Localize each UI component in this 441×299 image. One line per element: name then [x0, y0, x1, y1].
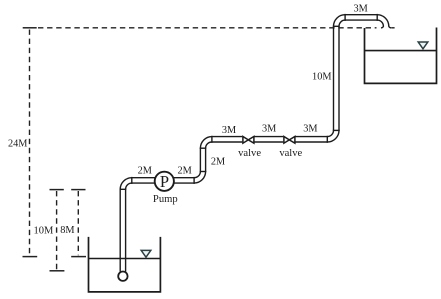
main riser pipe vertical 10M [334, 26, 340, 130]
suction elbow (vertical to horizontal at pump level) [120, 178, 132, 190]
dimension 10M vertical dashed line [56, 191, 58, 269]
lower tank water line [89, 258, 161, 260]
valve 2 (bowtie symbol) [284, 137, 295, 144]
riser top elbow joint ticks [200, 136, 212, 148]
valve line right elbow (horizontal to vertical up) [327, 130, 339, 142]
valve line pipe segment 2 (3M) [254, 137, 283, 142]
dimension 10M top cap [50, 189, 64, 191]
upper tank water level marker triangle [418, 42, 428, 49]
dimension 24M vertical dashed line [29, 30, 31, 256]
upper tank water line [365, 50, 437, 52]
dimension 8M bottom cap [71, 256, 86, 258]
svg-text:valve: valve [279, 148, 302, 159]
suction pipe horizontal (2M into pump) [132, 178, 164, 183]
svg-text:8M: 8M [60, 225, 74, 236]
dimension 24M bottom cap [23, 256, 38, 258]
lower tank water level marker triangle [141, 250, 151, 257]
valve 1 (bowtie symbol) [243, 137, 254, 144]
discharge elbow joint ticks [194, 172, 206, 184]
dimension 8M vertical dashed line [77, 191, 79, 255]
dimension 10M bottom cap [50, 270, 65, 272]
dimension 24M top cap [23, 27, 37, 29]
suction elbow joint ticks [120, 177, 132, 189]
valve line pipe segment 1 (3M) [212, 137, 242, 142]
discharge elbow (horizontal to vertical up) [194, 172, 206, 184]
svg-text:P: P [160, 172, 169, 191]
svg-text:3M: 3M [354, 4, 368, 15]
outlet elbow (horizontal to vertical down, open discharge end) [377, 15, 391, 28]
dimension 8M top cap [71, 189, 85, 191]
valve line pipe segment 3 (3M) [295, 137, 327, 142]
riser top elbow (vertical to horizontal right) [200, 137, 212, 149]
svg-text:10M: 10M [312, 71, 331, 82]
upper tank [365, 28, 437, 84]
lower tank [89, 237, 161, 292]
svg-text:Pump: Pump [153, 194, 178, 205]
pump P (circle symbol) [155, 172, 174, 191]
riser pipe vertical 2M [200, 148, 205, 171]
foot valve circle at suction pipe end [118, 272, 127, 281]
top delivery pipe horizontal 3M [345, 15, 377, 20]
outlet elbow joint tick [376, 14, 378, 21]
svg-text:3M: 3M [303, 124, 317, 135]
valve line right elbow joint ticks [327, 130, 339, 142]
svg-text:2M: 2M [211, 156, 225, 167]
datum dashed line top (upper water level reference) [38, 27, 395, 29]
svg-text:10M: 10M [33, 225, 54, 236]
svg-text:3M: 3M [262, 124, 276, 135]
main riser top elbow joint ticks [333, 14, 345, 26]
svg-text:valve: valve [238, 148, 261, 159]
suction pipe vertical (into lower tank) [120, 189, 125, 271]
main riser top elbow (vertical to horizontal right) [334, 15, 346, 27]
svg-text:24M: 24M [8, 138, 27, 149]
svg-text:2M: 2M [138, 165, 152, 176]
svg-text:3M: 3M [222, 125, 236, 136]
discharge pipe horizontal from pump (2M) [164, 178, 194, 183]
svg-text:2M: 2M [177, 165, 191, 176]
